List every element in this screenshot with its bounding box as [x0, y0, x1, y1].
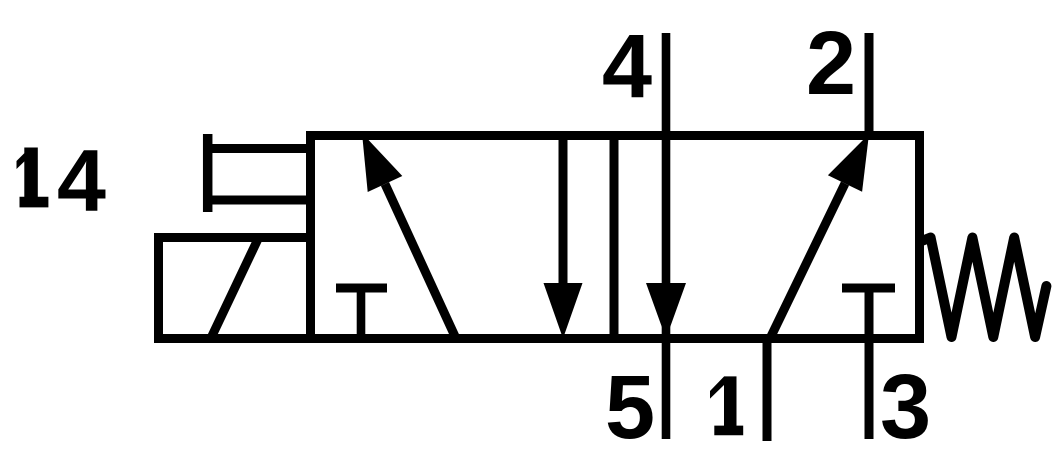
solenoid coil diagonal — [211, 239, 258, 338]
flow arrow 2 to 3 shaft (left position) — [559, 135, 568, 283]
seat bar port 5 (left position) — [336, 284, 387, 293]
port 1 stub — [763, 334, 772, 441]
valve body bottom line — [154, 334, 924, 343]
position divider — [610, 131, 619, 343]
pilot cap bar 14 — [203, 134, 213, 212]
label port 1 — [710, 376, 743, 435]
valve body right edge — [915, 131, 924, 343]
flow arrow 1 to 2 shaft — [770, 184, 845, 339]
port 3 stub and seat stem — [865, 292, 874, 439]
arrowhead down 2 to 3 (left position) — [544, 283, 583, 339]
seat stem port 5 (left position) — [357, 288, 366, 343]
svg-text:4: 4 — [602, 17, 652, 117]
port 2 stub — [865, 33, 874, 140]
seat bar port 3 — [842, 284, 895, 293]
return spring — [923, 238, 1046, 338]
arrowhead down 4 to 5 — [646, 283, 686, 339]
valve body top line — [306, 131, 924, 140]
flow arrow 1 to 4 shaft (left position) — [385, 184, 456, 339]
flow line 4 to 5 with port stubs — [662, 33, 671, 439]
pilot line upper — [204, 144, 310, 153]
solenoid box top edge — [154, 233, 314, 242]
arrowhead up 1 to 2 — [828, 134, 869, 192]
solenoid box left edge — [154, 233, 163, 343]
svg-text:5: 5 — [605, 358, 655, 458]
svg-text:4: 4 — [57, 131, 106, 230]
valve body left edge — [306, 131, 315, 343]
arrowhead up 1 to 4 (left position) — [362, 133, 402, 192]
svg-text:2: 2 — [806, 14, 856, 114]
svg-text:3: 3 — [880, 356, 931, 458]
pilot line lower — [204, 196, 310, 205]
label pilot port 14 digit 1 — [17, 148, 49, 208]
